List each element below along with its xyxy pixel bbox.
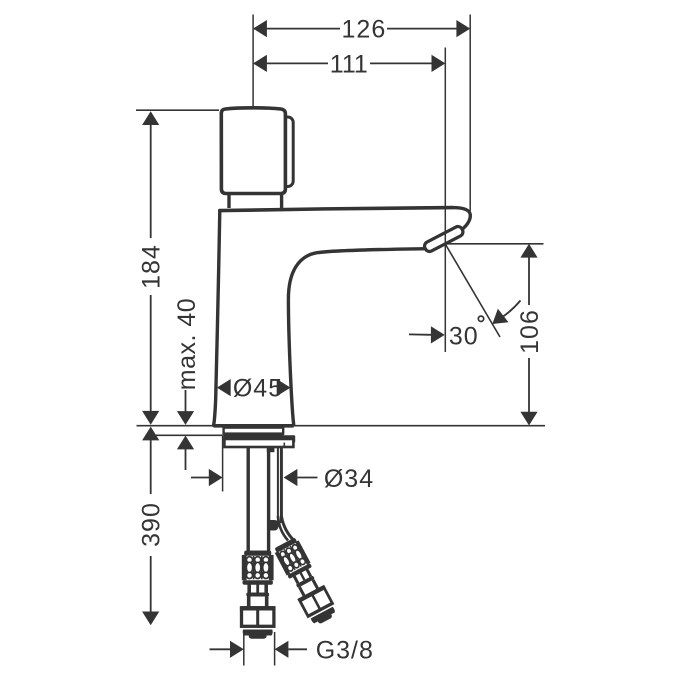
dimension G3/8 extension lines — [244, 631, 275, 666]
dimension 106 extension line — [446, 243, 544, 245]
svg-text:30: 30 — [449, 322, 479, 350]
deck underside line — [155, 434, 223, 436]
sink deck line — [137, 425, 546, 427]
right supply hose — [271, 536, 339, 628]
dimension D34 extension line — [222, 435, 224, 491]
svg-text:G3/8: G3/8 — [316, 637, 374, 665]
top reference line — [136, 109, 219, 111]
dimension 390 line — [150, 440, 152, 612]
faucet body fill — [214, 208, 471, 426]
hose junction top — [267, 448, 275, 452]
dimension 126 extension line right — [469, 15, 471, 212]
svg-text:max. 40: max. 40 — [173, 298, 201, 390]
flange divider — [283, 443, 285, 446]
svg-text:184: 184 — [138, 244, 166, 289]
faucet spout top edge — [220, 208, 453, 211]
dimension 184 line — [150, 124, 152, 412]
svg-text:390: 390 — [138, 502, 166, 547]
handle grip tab — [276, 117, 293, 187]
handle knob — [221, 108, 285, 194]
dimension 111 line — [254, 62, 444, 64]
shank tube right wall — [267, 449, 270, 552]
dimension D34 arrows — [191, 477, 209, 479]
svg-text:111: 111 — [330, 50, 368, 78]
dimension max. 40 line — [185, 390, 187, 470]
mounting flange lower ring — [224, 439, 293, 447]
handle neck — [229, 194, 282, 209]
faucet body right edge and spout underside — [288, 249, 425, 425]
mounting flange step — [280, 435, 295, 442]
right hose bend — [281, 516, 295, 542]
shank tube left wall — [246, 448, 249, 552]
svg-text:126: 126 — [342, 16, 387, 44]
svg-text:Ø34: Ø34 — [324, 465, 374, 493]
dimension 126 extension line left — [252, 15, 254, 108]
dimension 126 line — [254, 28, 469, 30]
svg-text:106: 106 — [516, 309, 544, 354]
30 degree leader arrow left — [409, 333, 431, 335]
right hose outer wall — [280, 448, 283, 523]
dimension 111 extension line through outlet — [444, 48, 446, 353]
left supply hose — [240, 551, 276, 639]
degree symbol — [478, 316, 483, 321]
mounting flange dark band — [223, 433, 283, 440]
mounting washer — [224, 428, 284, 434]
faucet body outline left edge — [214, 211, 220, 426]
faucet spout nose — [453, 208, 471, 230]
30 degree slant line — [445, 244, 500, 337]
svg-text:Ø45: Ø45 — [233, 374, 283, 402]
faucet body bottom edge — [214, 424, 294, 428]
dimension D45 arrows — [217, 379, 231, 396]
dimension G3/8 arrows — [210, 648, 231, 650]
30 degree arc with arrow — [494, 301, 521, 323]
hose junction bend — [267, 520, 279, 531]
aerator outlet — [423, 225, 465, 253]
right hose inner wall — [277, 448, 279, 521]
dimension 106 line — [528, 257, 530, 414]
